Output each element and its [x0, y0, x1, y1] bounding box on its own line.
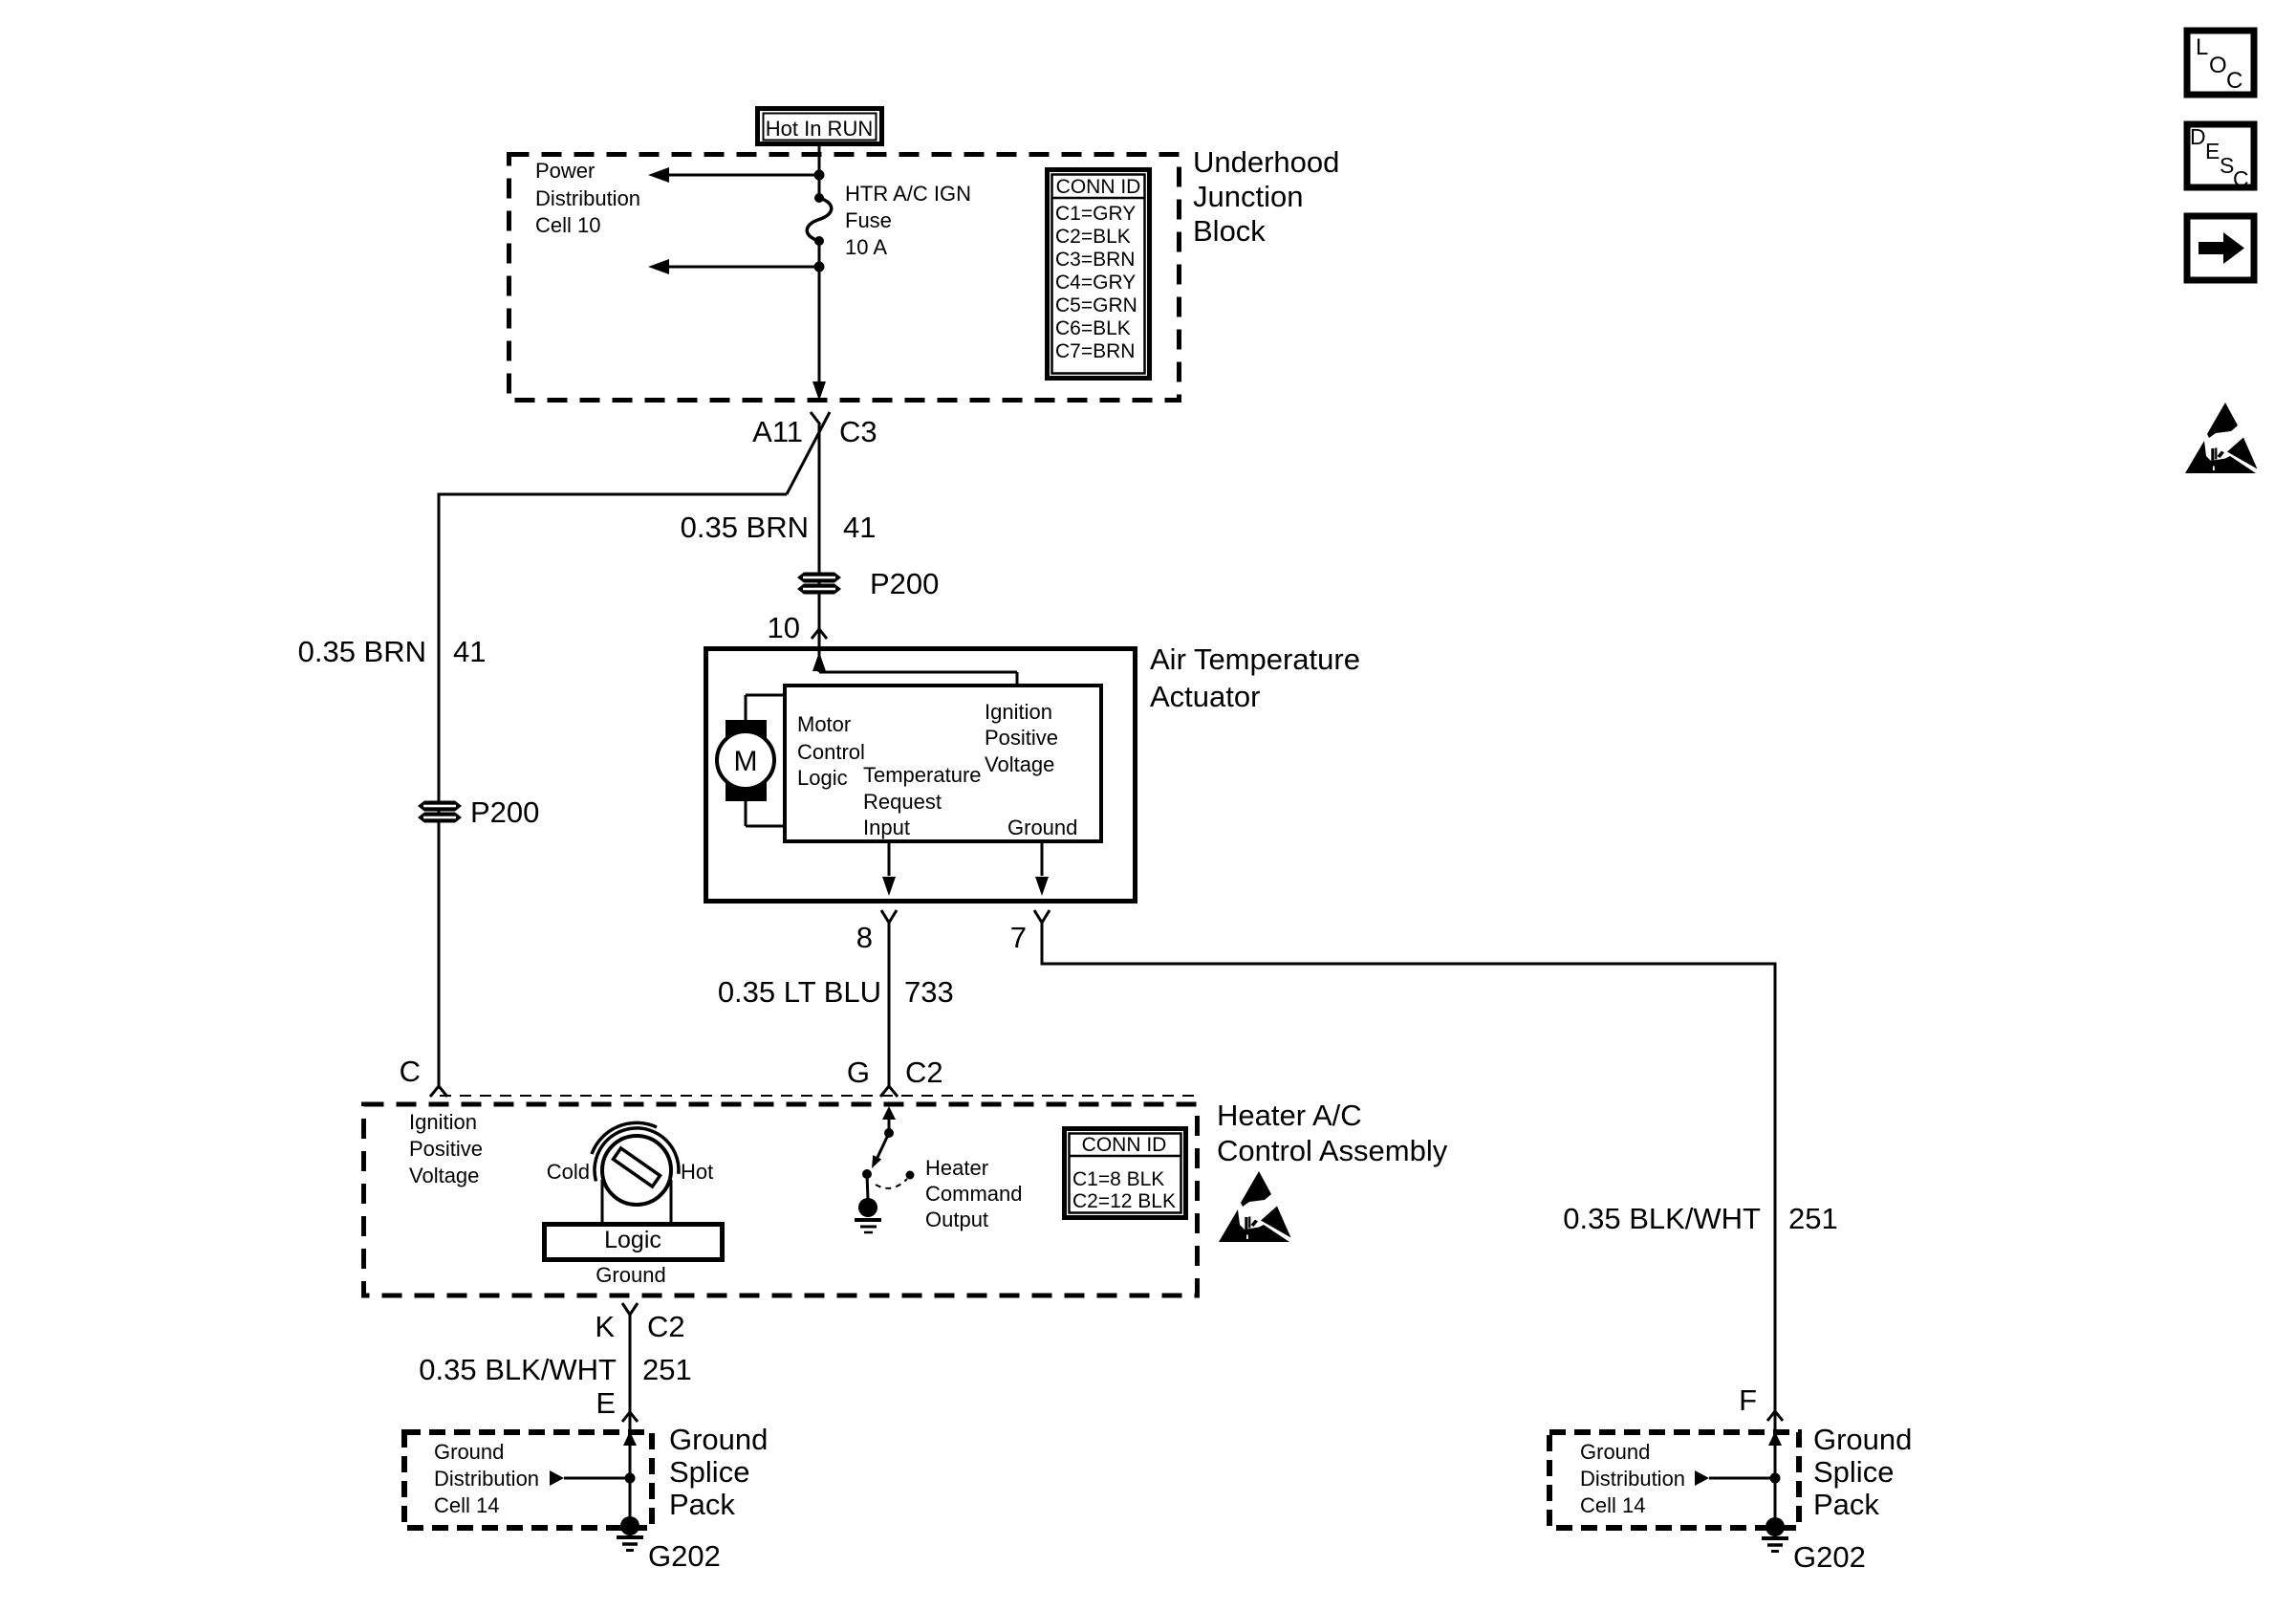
- svg-text:Voltage: Voltage: [985, 752, 1054, 776]
- wire arrow into splice pack (left): [623, 1431, 637, 1446]
- svg-text:Ground: Ground: [434, 1440, 504, 1464]
- text Ignition Positive Voltage (heater): [409, 1110, 483, 1187]
- svg-text:41: 41: [453, 635, 486, 668]
- ESD symbol (top right): [2185, 403, 2258, 473]
- svg-text:C2: C2: [647, 1310, 685, 1343]
- svg-text:Actuator: Actuator: [1150, 680, 1260, 713]
- svg-text:Distribution: Distribution: [434, 1467, 539, 1491]
- svg-text:C1=GRY: C1=GRY: [1055, 203, 1136, 225]
- connector K / C2: [595, 1303, 684, 1343]
- connector F: [1739, 1383, 1783, 1421]
- svg-text:O: O: [2209, 53, 2227, 78]
- svg-text:Heater A/C: Heater A/C: [1217, 1099, 1362, 1132]
- svg-text:0.35 BLK/WHT: 0.35 BLK/WHT: [419, 1353, 617, 1386]
- svg-text:Output: Output: [925, 1208, 988, 1231]
- svg-text:P200: P200: [870, 567, 939, 600]
- wire 0.35 BRN 41 (right, down to actuator): [818, 425, 821, 672]
- splice P200 (left): [418, 795, 539, 829]
- wire to right ground: [1774, 1411, 1777, 1520]
- svg-text:G202: G202: [648, 1539, 721, 1573]
- temperature dial (Cold/Hot): [592, 1122, 679, 1225]
- svg-text:0.35 BRN: 0.35 BRN: [681, 511, 809, 544]
- fuse HTR A/C IGN 10 A: [807, 193, 832, 246]
- svg-text:7: 7: [1010, 921, 1027, 954]
- label 0.35 LT BLU 733: [718, 975, 954, 1009]
- logic box (dial base): [545, 1225, 723, 1260]
- svg-text:Hot In RUN: Hot In RUN: [766, 117, 873, 141]
- label 0.35 BLK/WHT 251 (left): [419, 1353, 691, 1386]
- label 0.35 BLK/WHT 251 (right): [1563, 1202, 1837, 1235]
- text Ignition Positive Voltage (actuator): [985, 700, 1058, 776]
- svg-text:C7=BRN: C7=BRN: [1055, 340, 1135, 362]
- svg-text:Power: Power: [535, 159, 595, 183]
- text Power Distribution Cell 10: [535, 159, 640, 237]
- svg-text:A11: A11: [752, 415, 803, 448]
- svg-text:Logic: Logic: [604, 1227, 661, 1253]
- DESC icon box: [2187, 124, 2254, 191]
- svg-text:E: E: [596, 1386, 616, 1420]
- wire arrow into splice pack (right): [1768, 1431, 1782, 1446]
- wire (ignition feed inside actuator): [812, 652, 1017, 686]
- svg-text:Ignition: Ignition: [985, 700, 1052, 724]
- node (junction dot upper): [814, 170, 825, 181]
- connector G / C2: [847, 1056, 943, 1097]
- svg-text:Fuse: Fuse: [845, 208, 892, 232]
- svg-text:Temperature: Temperature: [863, 763, 982, 787]
- svg-text:Request: Request: [863, 790, 942, 814]
- svg-text:Positive: Positive: [409, 1137, 483, 1161]
- label Underhood Junction Block: [1193, 145, 1339, 248]
- label Ground Splice Pack (left): [669, 1423, 768, 1521]
- svg-text:Control Assembly: Control Assembly: [1217, 1134, 1448, 1167]
- dashed wiper arc: [876, 1171, 915, 1188]
- wire 0.35 BLK/WHT 251 (pin 7 to right ground): [1041, 923, 1777, 1411]
- splice P200 (right): [797, 567, 939, 600]
- svg-text:Distribution: Distribution: [535, 186, 640, 210]
- svg-text:Input: Input: [863, 816, 910, 839]
- svg-text:Hot: Hot: [681, 1160, 713, 1184]
- ground G202 (right): [1762, 1517, 1866, 1574]
- wire 0.35 BLK/WHT 251 (left): [629, 1315, 632, 1520]
- svg-text:C2: C2: [905, 1056, 943, 1089]
- svg-text:Air Temperature: Air Temperature: [1150, 642, 1360, 676]
- thin dashed connector face line: [440, 1095, 1200, 1097]
- svg-text:Splice: Splice: [669, 1455, 749, 1489]
- label 0.35 BRN 41 (right): [681, 511, 877, 544]
- svg-text:0.35 BRN: 0.35 BRN: [298, 635, 426, 668]
- svg-text:CONN ID: CONN ID: [1082, 1134, 1167, 1156]
- Ground Splice Pack dashed box (left): [404, 1432, 652, 1528]
- svg-text:10: 10: [768, 611, 800, 644]
- svg-text:Positive: Positive: [985, 726, 1058, 750]
- pin 7 connector: [1010, 910, 1050, 954]
- label HTR A/C IGN Fuse 10 A: [845, 182, 971, 259]
- svg-text:C4=GRY: C4=GRY: [1055, 272, 1136, 294]
- pin 10: [768, 611, 827, 644]
- wire (ignition feed from Hot In RUN): [818, 146, 821, 198]
- svg-text:Pack: Pack: [669, 1488, 735, 1521]
- text Heater Command Output: [925, 1156, 1022, 1231]
- svg-text:D: D: [2190, 124, 2206, 149]
- svg-text:Ground: Ground: [1580, 1440, 1650, 1464]
- ESD symbol (heater): [1219, 1171, 1291, 1242]
- svg-text:C1=8 BLK: C1=8 BLK: [1072, 1168, 1164, 1190]
- svg-text:733: 733: [904, 975, 954, 1009]
- svg-text:G: G: [847, 1056, 870, 1089]
- Ground Splice Pack dashed box (right): [1549, 1432, 1799, 1528]
- svg-text:Command: Command: [925, 1182, 1022, 1206]
- svg-text:HTR A/C IGN: HTR A/C IGN: [845, 182, 971, 206]
- text Ground Distribution Cell 14 (left): [434, 1440, 539, 1517]
- svg-text:C5=GRN: C5=GRN: [1055, 294, 1137, 316]
- Heater A/C Control Assembly dashed box: [364, 1104, 1198, 1295]
- svg-text:C2=BLK: C2=BLK: [1055, 226, 1131, 248]
- Air Temperature Actuator box: [706, 649, 1136, 902]
- svg-text:Ground: Ground: [596, 1263, 665, 1287]
- label 0.35 BRN 41 (left): [298, 635, 487, 668]
- heater command output switch: [862, 1106, 896, 1200]
- svg-text:Cell 10: Cell 10: [535, 213, 600, 237]
- svg-text:C: C: [2233, 166, 2249, 191]
- svg-text:Cell 14: Cell 14: [434, 1493, 499, 1517]
- svg-text:251: 251: [1788, 1202, 1838, 1235]
- svg-text:Voltage: Voltage: [409, 1164, 479, 1187]
- svg-text:CONN ID: CONN ID: [1056, 176, 1141, 198]
- svg-text:Splice: Splice: [1813, 1455, 1894, 1489]
- text Motor Control Logic: [797, 712, 865, 790]
- node (junction dot lower): [814, 262, 825, 272]
- connector A11 / C3: [752, 412, 877, 448]
- svg-text:Pack: Pack: [1813, 1488, 1879, 1521]
- svg-text:Underhood: Underhood: [1193, 145, 1339, 179]
- svg-text:Ignition: Ignition: [409, 1110, 477, 1134]
- wire (diagonal branch at A11): [787, 412, 830, 494]
- svg-text:Block: Block: [1193, 214, 1266, 248]
- wire 0.35 LT BLU 733: [888, 923, 891, 1086]
- svg-text:Cell 14: Cell 14: [1580, 1493, 1645, 1517]
- ground (heater command): [855, 1198, 881, 1232]
- label Ground Splice Pack (right): [1813, 1423, 1912, 1521]
- label Air Temperature Actuator: [1150, 642, 1360, 713]
- svg-text:Cold: Cold: [547, 1160, 590, 1184]
- svg-text:Distribution: Distribution: [1580, 1467, 1685, 1491]
- wire spur (left splice): [550, 1470, 636, 1486]
- svg-text:41: 41: [843, 511, 876, 544]
- wire pin 8 (temperature request): [882, 841, 896, 896]
- LOC icon box: [2187, 31, 2254, 95]
- svg-text:8: 8: [856, 921, 873, 954]
- svg-text:Ground: Ground: [1007, 816, 1077, 839]
- label Heater A/C Control Assembly: [1217, 1099, 1448, 1167]
- svg-text:G202: G202: [1793, 1540, 1866, 1574]
- svg-text:Motor: Motor: [797, 712, 851, 736]
- CONN ID table (Underhood Junction Block): [1048, 170, 1150, 379]
- svg-text:C6=BLK: C6=BLK: [1055, 317, 1131, 339]
- svg-text:Ground: Ground: [1813, 1423, 1912, 1456]
- Underhood Junction Block dashed box: [509, 155, 1180, 401]
- svg-text:251: 251: [642, 1353, 692, 1386]
- svg-text:0.35 LT BLU: 0.35 LT BLU: [718, 975, 881, 1009]
- connector E: [596, 1386, 638, 1422]
- connector C (heater assembly): [400, 1055, 447, 1097]
- CONN ID table (heater): [1065, 1129, 1186, 1218]
- svg-text:0.35 BLK/WHT: 0.35 BLK/WHT: [1563, 1202, 1761, 1235]
- svg-text:C2=12 BLK: C2=12 BLK: [1072, 1190, 1176, 1212]
- svg-text:C3=BRN: C3=BRN: [1055, 249, 1135, 271]
- wire arrow to power distribution (upper): [666, 174, 819, 177]
- wire 0.35 BRN 41 (left branch): [439, 493, 787, 1087]
- wire arrow to power distribution (lower): [666, 266, 819, 269]
- wire pin 7 (ground): [1035, 841, 1049, 896]
- svg-text:L: L: [2196, 34, 2208, 60]
- svg-text:Control: Control: [797, 740, 865, 764]
- svg-text:10 A: 10 A: [845, 235, 887, 259]
- Hot In RUN box: [758, 109, 882, 144]
- svg-text:E: E: [2205, 139, 2220, 163]
- ground G202 (left): [617, 1516, 721, 1573]
- actuator control logic inner box: [785, 686, 1101, 841]
- text Ground Distribution Cell 14 (right): [1580, 1440, 1685, 1517]
- svg-text:M: M: [734, 746, 758, 777]
- svg-text:C: C: [2226, 68, 2242, 94]
- svg-text:Heater: Heater: [925, 1156, 988, 1180]
- pin 8 connector: [856, 910, 897, 954]
- svg-text:Junction: Junction: [1193, 180, 1303, 213]
- svg-text:C: C: [400, 1055, 421, 1088]
- svg-text:C3: C3: [839, 415, 877, 448]
- text Temperature Request Input: [863, 763, 982, 839]
- svg-text:K: K: [595, 1310, 615, 1343]
- svg-text:P200: P200: [470, 795, 539, 829]
- motor M1: [717, 695, 785, 826]
- wire spur (right splice): [1695, 1470, 1781, 1486]
- svg-text:F: F: [1739, 1383, 1757, 1417]
- right-arrow icon box: [2187, 216, 2254, 280]
- svg-text:Logic: Logic: [797, 766, 848, 790]
- svg-text:Ground: Ground: [669, 1423, 768, 1456]
